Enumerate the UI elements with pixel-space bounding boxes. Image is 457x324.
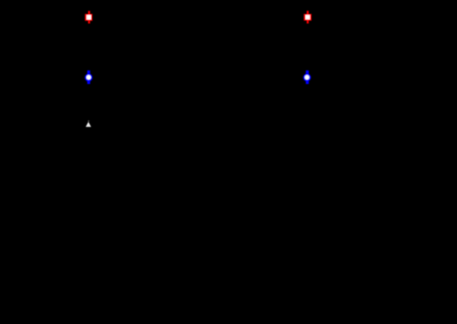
- wire: right branch, VCC pin to node N2: [306, 24, 308, 70]
- wire: right branch, node N2 down: [306, 84, 308, 160]
- wire: left branch, VCC pin to node N1: [88, 24, 90, 70]
- power pin VCC2 (red square terminal marker, right): [304, 11, 312, 24]
- wire: left branch, node N1 down to diode D1: [88, 84, 90, 120]
- diode D1 (white arrow triangle, left branch): [86, 120, 91, 127]
- ground (left branch): [81, 160, 97, 168]
- power pin VCC1 (red square terminal marker, left): [85, 11, 93, 24]
- ground (right branch): [299, 160, 315, 168]
- wire: left branch, diode D1 to ground: [88, 128, 90, 160]
- node N1 (blue junction marker, left): [85, 70, 93, 84]
- node N2 (blue junction marker, right): [303, 70, 311, 84]
